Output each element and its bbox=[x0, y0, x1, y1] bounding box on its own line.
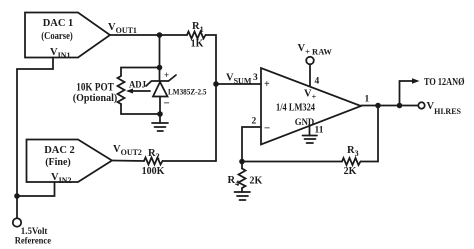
DAC 2 (Fine) body bbox=[27, 140, 113, 183]
svg-text:1.5Volt: 1.5Volt bbox=[21, 227, 48, 237]
resistor R3 bbox=[342, 145, 361, 177]
pot wiper arrow bbox=[126, 89, 150, 94]
svg-text:R4: R4 bbox=[228, 175, 240, 188]
DAC 1 (Coarse) body bbox=[25, 13, 110, 58]
svg-text:100K: 100K bbox=[142, 166, 165, 177]
wire VIN1 to left rail bbox=[17, 58, 53, 70]
svg-text:1/4 LM324: 1/4 LM324 bbox=[276, 103, 315, 114]
svg-text:3: 3 bbox=[253, 73, 258, 83]
svg-text:Reference: Reference bbox=[15, 237, 51, 247]
ground (op-amp pin 11) bbox=[303, 126, 318, 143]
svg-text:(Coarse): (Coarse) bbox=[41, 31, 73, 42]
resistor R1 bbox=[187, 21, 206, 50]
svg-text:2K: 2K bbox=[250, 176, 263, 187]
wire R3 to output bbox=[361, 106, 379, 162]
svg-text:1K: 1K bbox=[191, 39, 204, 50]
svg-text:2: 2 bbox=[252, 117, 257, 127]
reference diode LM385Z-2.5 bbox=[129, 68, 207, 115]
resistor R2 bbox=[142, 148, 165, 177]
junction left rail bbox=[14, 193, 20, 199]
svg-text:1: 1 bbox=[365, 95, 370, 105]
wire VSUM to op-amp pin 3 bbox=[216, 83, 261, 85]
left rail wire bbox=[16, 69, 18, 218]
svg-text:−: − bbox=[164, 98, 170, 110]
junction output/branch bbox=[397, 103, 403, 109]
wire top of pot loop bbox=[121, 68, 160, 77]
svg-text:TO 12ANØ: TO 12ANØ bbox=[424, 76, 465, 88]
potentiometer 10K POT bbox=[73, 76, 125, 114]
resistor R4 bbox=[228, 162, 263, 193]
junction VOUT1/LM385 bbox=[157, 32, 163, 38]
arrow TO 12AN0 bbox=[412, 76, 465, 88]
svg-text:(Fine): (Fine) bbox=[45, 157, 71, 168]
svg-text:V+: V+ bbox=[304, 89, 317, 102]
junction output/feedback bbox=[375, 103, 381, 109]
wire R2 to VSUM rail bbox=[163, 160, 217, 162]
wire op-amp pin 2 to feedback node bbox=[242, 127, 261, 162]
svg-text:+: + bbox=[264, 79, 270, 90]
wire branch to arrow bbox=[400, 81, 414, 106]
ground (LM385) bbox=[152, 114, 168, 131]
ground (R4) bbox=[235, 192, 251, 200]
svg-text:LM385Z-2.5: LM385Z-2.5 bbox=[168, 87, 207, 97]
svg-text:ADJ: ADJ bbox=[129, 81, 146, 91]
svg-text:V+ RAW: V+ RAW bbox=[298, 43, 333, 57]
V+ RAW supply terminal bbox=[298, 43, 333, 86]
wire VIN2 to left rail bbox=[17, 182, 55, 196]
wire R1 to VSUM rail bbox=[206, 35, 217, 161]
wire VOUT2 to R2 bbox=[112, 160, 144, 163]
wire op-amp output bbox=[361, 105, 418, 107]
svg-text:VOUT2: VOUT2 bbox=[113, 144, 142, 157]
svg-text:(Optional): (Optional) bbox=[73, 92, 118, 104]
wire bottom of pot loop bbox=[121, 113, 160, 115]
svg-text:−: − bbox=[264, 123, 270, 135]
wire VOUT1 to R1 bbox=[110, 34, 187, 36]
terminal 1.5 Volt Reference bbox=[13, 218, 51, 246]
svg-text:DAC 2: DAC 2 bbox=[44, 145, 75, 156]
junction pot top bbox=[157, 65, 163, 71]
svg-text:GND: GND bbox=[295, 118, 315, 128]
svg-text:4: 4 bbox=[315, 77, 320, 87]
wire junction to pot loop top bbox=[159, 35, 161, 68]
svg-text:11: 11 bbox=[315, 126, 324, 136]
wire feedback node to R3 bbox=[242, 161, 342, 163]
junction pot bottom bbox=[157, 111, 163, 117]
junction feedback node bbox=[239, 159, 245, 165]
svg-text:+: + bbox=[164, 70, 169, 80]
terminal VHI.RES bbox=[418, 101, 461, 116]
svg-text:VOUT1: VOUT1 bbox=[108, 22, 137, 35]
op-amp U1 1/4 LM324 bbox=[261, 68, 361, 145]
svg-text:R2: R2 bbox=[148, 148, 160, 161]
svg-text:2K: 2K bbox=[344, 166, 357, 177]
junction VSUM bbox=[213, 81, 219, 87]
svg-text:DAC 1: DAC 1 bbox=[43, 18, 74, 29]
svg-text:R3: R3 bbox=[347, 145, 359, 158]
svg-text:VHI.RES: VHI.RES bbox=[427, 101, 462, 116]
